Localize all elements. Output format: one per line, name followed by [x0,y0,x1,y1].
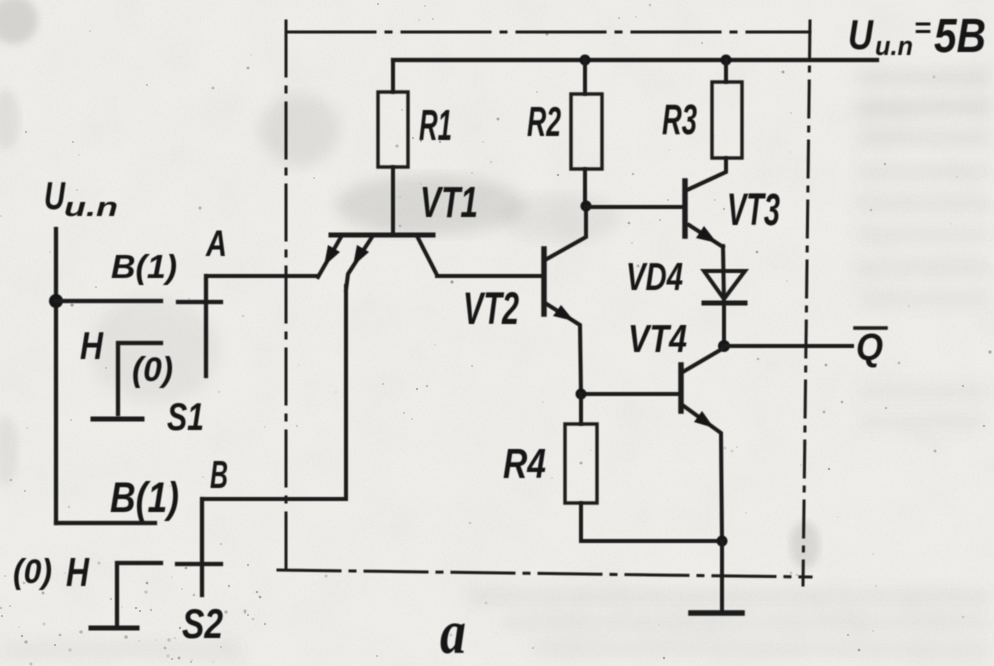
svg-text:U: U [848,11,874,58]
svg-text:=: = [914,12,931,43]
wire R4 top [579,394,583,424]
switch lever A [204,276,208,376]
wire R2 bottom [583,169,587,206]
resistor R4 [565,424,597,503]
wire supply vertical left [54,229,58,523]
VT3 emitter [689,225,723,247]
svg-text:VD4: VD4 [626,256,683,299]
svg-text:VT3: VT3 [727,184,780,235]
wire B(1) upper [56,299,161,303]
ground [691,610,742,616]
dash-dot box top [287,31,810,34]
VT2 collector [545,206,586,260]
diode VD4 triangle [704,271,745,299]
wire R1 bottom [391,167,395,235]
svg-text:a: a [440,599,466,666]
resistor R2 [571,94,602,169]
svg-text:S1: S1 [167,396,204,439]
transistor VT3 base bar [682,181,687,236]
svg-text:(0): (0) [132,351,173,389]
wire output Q [724,344,852,348]
switch crossbar A [178,300,221,304]
switch S1 bracket [118,343,161,414]
VT3 collector [685,158,726,191]
svg-text:U: U [44,175,66,218]
svg-text:B(1): B(1) [110,474,179,522]
svg-text:u.n: u.n [64,192,118,222]
node supply-B1 [49,294,63,308]
dash-dot box bottom [278,570,811,577]
svg-text:(0): (0) [13,553,52,591]
svg-text:H: H [66,549,90,595]
wire node to VT4 base [581,392,681,396]
svg-text:B(1): B(1) [111,248,177,285]
resistor R3 [712,82,742,158]
node rail-R3 [721,55,732,66]
wire R3 top [724,60,728,82]
VT1 emitter 1 [318,237,341,277]
diode VD4 anode wire (runs through the triangle) [723,246,724,304]
svg-text:VT4: VT4 [628,318,687,361]
node VT2 collector / R2 [581,201,592,212]
svg-text:R4: R4 [503,440,546,487]
svg-text:H: H [80,325,104,368]
svg-text:S2: S2 [182,600,223,647]
svg-text:u.n: u.n [875,31,913,61]
wire R2 top [583,60,587,94]
VT4 collector [681,349,722,373]
wire input B [202,497,346,501]
svg-text:R3: R3 [662,96,697,144]
svg-text:R1: R1 [419,101,452,150]
VT4 emitter arrow [694,411,714,428]
node rail-R2 [580,55,591,66]
dash-dot box left [285,21,288,575]
VT1 collector slant [417,236,437,275]
transistor VT1 base bar [331,233,433,238]
VT1 emitter 2 arrow [353,245,369,266]
switch crossbar B [177,562,221,566]
svg-text:Q: Q [856,327,883,369]
svg-text:VT2: VT2 [463,283,519,334]
svg-text:VT1: VT1 [420,178,478,227]
power rail Ucc [393,58,877,62]
wire to ground [720,541,724,613]
switch S2 bracket [117,563,161,628]
transistor VT4 base bar [678,365,683,411]
VT2 emitter [545,303,581,394]
VT1 emitter 2 [346,237,372,290]
VT1 emitter 1 arrow [324,245,340,266]
wire node to VT3 base [586,205,685,209]
node emitter-R4 [717,536,728,547]
svg-text:B: B [210,454,228,497]
switch lever B [200,499,204,595]
diode VD4 cathode bar [704,301,745,306]
wire R1 top [391,60,395,92]
wire VD4 to output node [722,304,726,346]
transistor VT2 base bar [541,249,546,314]
VT4 emitter [681,404,722,541]
switch S2 bar [91,626,137,631]
svg-text:5B: 5B [934,10,986,63]
Q overline [855,326,886,330]
svg-text:A: A [205,223,227,264]
VT2 emitter arrow [553,305,574,321]
wire input A [206,274,318,278]
VT3 emitter arrow [696,226,717,243]
wire VT1 to VT2 [437,274,544,278]
resistor R1 [378,92,408,167]
switch S1 bar [93,417,142,422]
dash-dot box right [803,21,810,585]
node VT2 emitter / R4 / VT4 [576,389,587,400]
wire emitter2 down to B [344,286,348,498]
svg-text:R2: R2 [527,98,561,145]
wire B(1) lower [56,521,155,525]
node output [718,340,730,352]
wire R4 bottom [581,503,722,541]
